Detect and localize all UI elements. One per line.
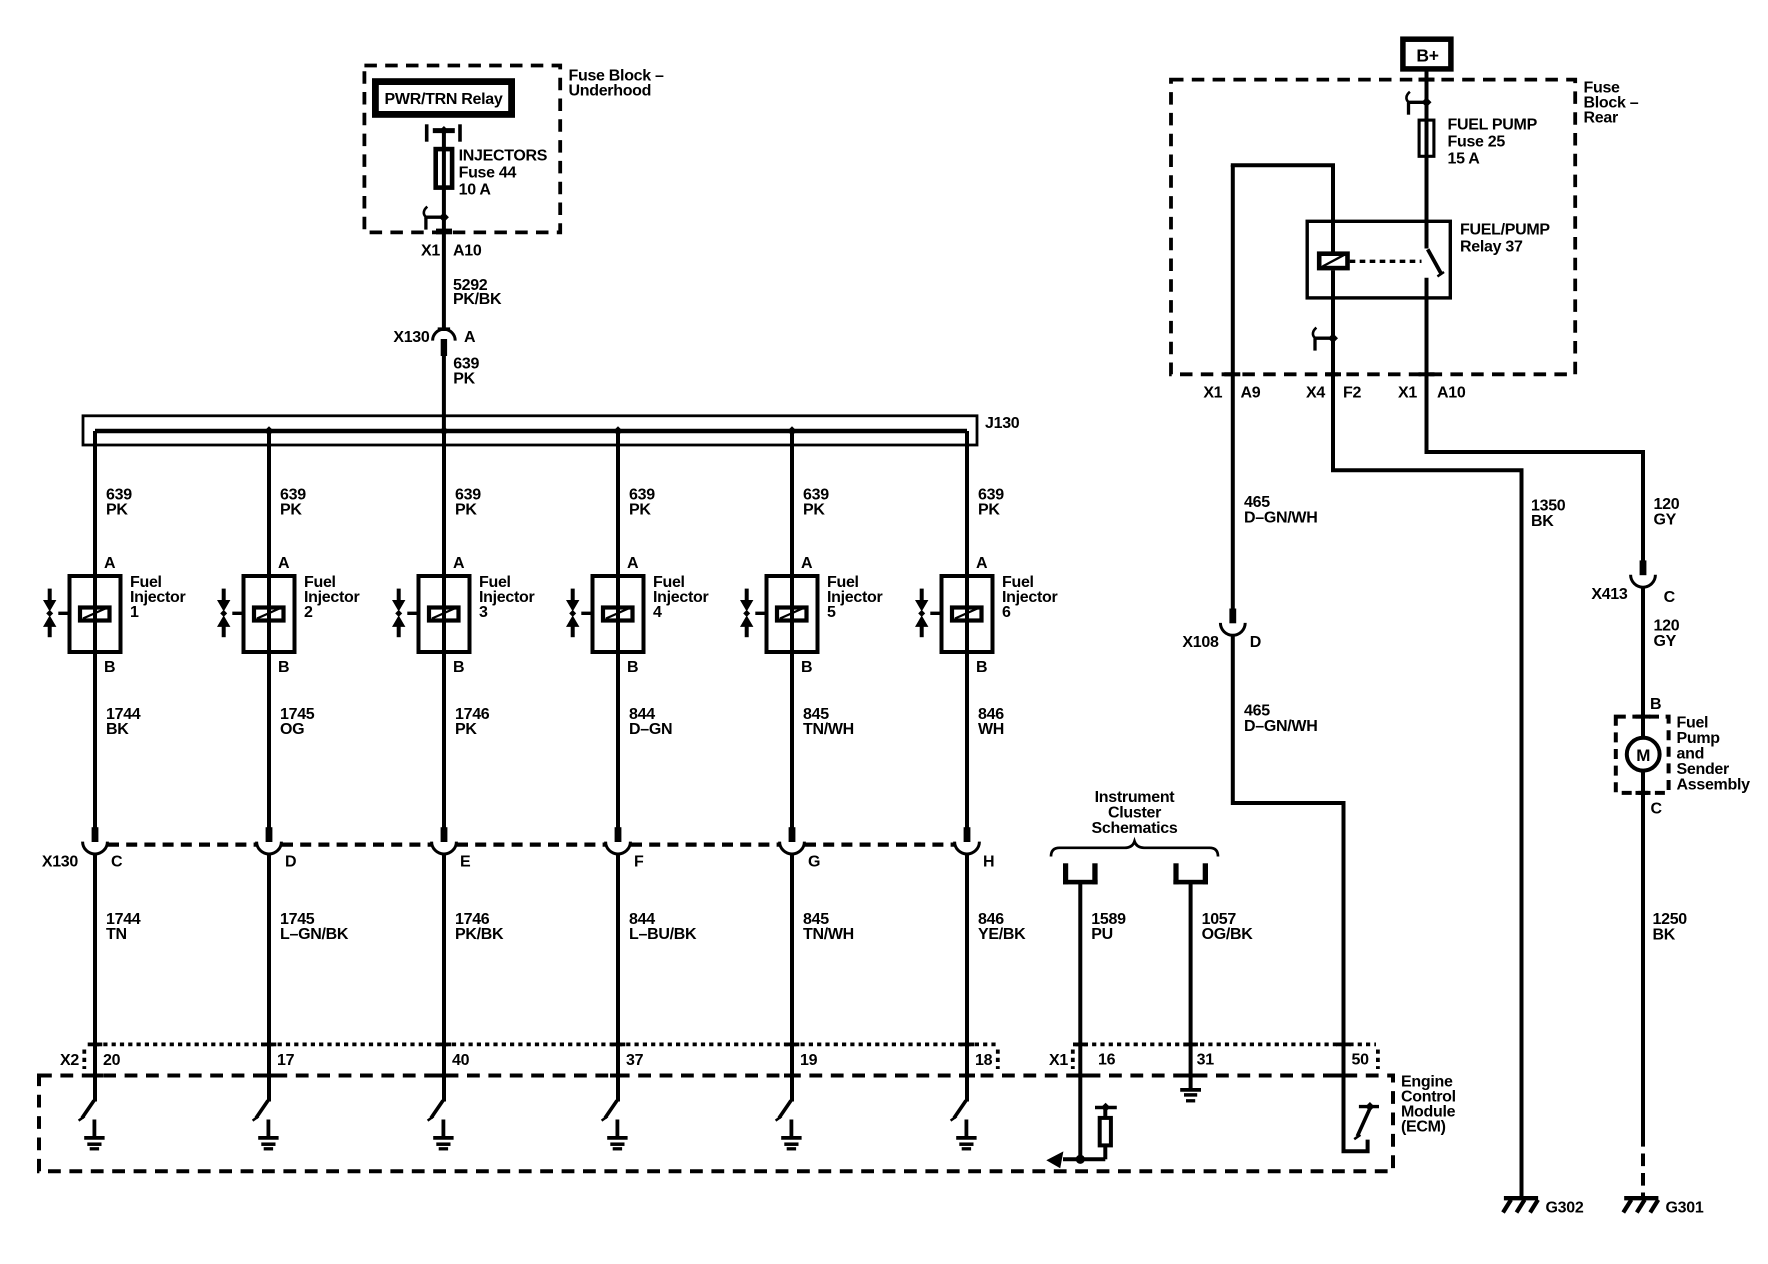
wire connector X130 to ECM pin 20 <box>93 853 97 1101</box>
svg-text:A: A <box>976 555 988 572</box>
relay internal dashed link <box>1350 260 1422 263</box>
pin 31 label <box>1197 1052 1215 1069</box>
svg-text:FUEL/PUMP: FUEL/PUMP <box>1460 222 1550 239</box>
svg-text:H: H <box>983 854 994 871</box>
connector X130 pin A <box>433 327 456 356</box>
wire bus to fuel injector 2 <box>267 431 271 574</box>
ground ECM driver 18 <box>956 1120 976 1149</box>
svg-text:PK: PK <box>978 502 1000 519</box>
svg-text:19: 19 <box>800 1052 818 1069</box>
splice clip B+ <box>1406 92 1431 115</box>
label Instrument Cluster Schematics <box>1092 789 1178 837</box>
svg-text:PK/BK: PK/BK <box>455 926 504 943</box>
svg-text:X130: X130 <box>393 329 430 346</box>
motor M fuel pump <box>1627 738 1660 771</box>
svg-text:J130: J130 <box>985 415 1020 432</box>
svg-text:(ECM): (ECM) <box>1401 1119 1446 1136</box>
wire pin A9 to connector X108 <box>1231 165 1235 609</box>
wire label 1746 PK <box>455 706 490 738</box>
svg-text:Fuse 44: Fuse 44 <box>459 165 517 182</box>
pin B label injector 6 <box>976 659 987 676</box>
fuse Fuse 25 <box>1419 119 1434 157</box>
ECM driver switch pin 20 <box>79 1101 94 1121</box>
wire label 465 D-GN/WH upper <box>1244 494 1317 527</box>
svg-text:B: B <box>104 659 115 676</box>
svg-text:A: A <box>104 555 116 572</box>
pin 40 label <box>452 1052 470 1069</box>
fuel injector 1 <box>43 574 121 654</box>
svg-text:Assembly: Assembly <box>1677 777 1751 794</box>
wire relay to fuse 44 <box>442 131 446 148</box>
wire label 846 YE/BK <box>978 911 1026 943</box>
svg-text:465: 465 <box>1244 703 1270 720</box>
svg-text:G: G <box>808 854 820 871</box>
svg-text:OG/BK: OG/BK <box>1202 926 1254 943</box>
brace instrument cluster <box>1051 841 1218 856</box>
wire label 465 D-GN/WH lower <box>1244 703 1317 736</box>
svg-text:X1: X1 <box>1398 385 1417 402</box>
ground ECM driver 19 <box>781 1120 801 1149</box>
label Fuel Injector 3 <box>479 574 534 621</box>
svg-text:D–GN/WH: D–GN/WH <box>1244 510 1317 527</box>
label Fuel Injector 1 <box>130 574 185 621</box>
svg-text:A: A <box>278 555 290 572</box>
ground ECM driver 17 <box>258 1120 278 1149</box>
svg-text:TN/WH: TN/WH <box>803 721 854 738</box>
svg-text:50: 50 <box>1352 1052 1370 1069</box>
connector X413 pin C <box>1631 560 1656 587</box>
connector X130 pin E <box>432 827 457 854</box>
svg-text:B: B <box>453 659 464 676</box>
fuel injector 3 <box>392 574 470 654</box>
svg-text:1250: 1250 <box>1653 911 1688 928</box>
svg-text:18: 18 <box>975 1052 993 1069</box>
wire label 120 GY lower <box>1654 618 1680 651</box>
resistor ECM pin 16 <box>1100 1118 1111 1146</box>
ECM driver switch pin 17 <box>253 1101 268 1121</box>
fuel injector 6 <box>915 574 993 654</box>
svg-text:YE/BK: YE/BK <box>978 926 1026 943</box>
wire B+ to splice <box>1425 69 1429 102</box>
connector X4 pin F2 labels <box>1306 385 1361 402</box>
svg-text:120: 120 <box>1654 618 1680 635</box>
wire label 846 WH <box>978 706 1004 738</box>
wire connector X413 to fuel pump <box>1641 587 1645 739</box>
wire label 639 PK injector 2 <box>280 487 306 519</box>
pin B label injector 1 <box>104 659 115 676</box>
connector X1 pin A10 labels right <box>1398 385 1466 402</box>
svg-text:A10: A10 <box>1437 385 1466 402</box>
svg-text:and: and <box>1677 746 1705 763</box>
svg-text:L–GN/BK: L–GN/BK <box>280 926 349 943</box>
svg-text:F: F <box>634 854 644 871</box>
svg-text:A: A <box>627 555 639 572</box>
wire injector 5 to connector X130 <box>790 654 794 842</box>
wire pin F2 to ground G302 <box>1333 468 1522 1196</box>
label FUEL PUMP Fuse 25 15 A <box>1448 117 1538 168</box>
connector instrument cluster circuit 1589 <box>1063 863 1098 884</box>
ECM connector X1 dotted edge <box>1073 1043 1378 1070</box>
relay PWR/TRN Relay box <box>375 82 511 115</box>
wire label 844 D&#8211;GN <box>629 706 672 738</box>
svg-text:L–BU/BK: L–BU/BK <box>629 926 697 943</box>
svg-text:X1: X1 <box>421 243 440 260</box>
pin 19 label <box>800 1052 818 1069</box>
label Engine Control Module ECM <box>1401 1074 1456 1136</box>
wire resistor to contact <box>1103 1109 1107 1118</box>
svg-text:G301: G301 <box>1666 1200 1704 1217</box>
svg-text:Instrument: Instrument <box>1095 789 1176 806</box>
battery B+ box <box>1403 39 1451 69</box>
wire bus to fuel injector 3 <box>442 431 446 574</box>
svg-text:G302: G302 <box>1546 1200 1584 1217</box>
svg-text:X4: X4 <box>1306 385 1325 402</box>
label Fuse Block Rear <box>1584 80 1639 127</box>
svg-text:INJECTORS: INJECTORS <box>459 148 548 165</box>
svg-text:PK/BK: PK/BK <box>453 291 502 308</box>
ground ECM pin 31 <box>1180 1090 1201 1101</box>
wire connector X130 to ECM pin 18 <box>965 853 969 1101</box>
wire label 1250 BK <box>1653 911 1688 944</box>
svg-text:X108: X108 <box>1182 634 1219 651</box>
connector X1 pin A9 labels <box>1203 385 1260 402</box>
svg-text:BK: BK <box>106 721 129 738</box>
svg-text:B: B <box>801 659 812 676</box>
splice clip relay coil <box>1313 328 1338 351</box>
wire injector 1 to connector X130 <box>93 654 97 842</box>
relay switch blade <box>1428 249 1444 276</box>
svg-text:2: 2 <box>304 604 313 621</box>
wire bus to fuel injector 5 <box>790 431 794 574</box>
pin C label fuel pump <box>1651 801 1663 818</box>
bus bar J130 <box>83 416 977 445</box>
pin A label injector 6 <box>976 555 988 572</box>
svg-text:6: 6 <box>1002 604 1011 621</box>
ground G301 <box>1623 1198 1658 1212</box>
svg-text:A: A <box>453 555 465 572</box>
wire injector 3 to connector X130 <box>442 654 446 842</box>
wire label 639 PK injector 1 <box>106 487 132 519</box>
wire ECM pin 50 internal <box>1344 1044 1368 1151</box>
connector X130 pin H <box>955 827 980 854</box>
svg-text:C: C <box>1651 801 1663 818</box>
svg-text:Fuel: Fuel <box>1677 715 1709 732</box>
pin A label injector 1 <box>104 555 116 572</box>
pin 18 label <box>975 1052 993 1069</box>
svg-text:X1: X1 <box>1203 385 1222 402</box>
svg-text:120: 120 <box>1654 496 1680 513</box>
relay terminal bracket <box>427 124 460 141</box>
svg-text:M: M <box>1636 746 1650 765</box>
wire splice to pin F2 <box>1331 338 1335 470</box>
svg-text:PK: PK <box>455 502 477 519</box>
ECM driver switch pin 40 <box>428 1101 443 1121</box>
wire label 1589 PU <box>1091 911 1126 943</box>
label G302 <box>1546 1200 1584 1217</box>
wire label 845 TN/WH <box>803 706 854 738</box>
relay coil <box>1319 254 1347 268</box>
svg-text:Fuse 25: Fuse 25 <box>1448 134 1506 151</box>
wire connector X130 to ECM pin 37 <box>616 853 620 1101</box>
pin 16 label <box>1098 1052 1116 1069</box>
label X2 <box>60 1052 79 1069</box>
wire label 1744 TN <box>106 911 141 943</box>
wire connector X130 to ECM pin 19 <box>790 853 794 1101</box>
wire label 639 PK injector 5 <box>803 487 829 519</box>
svg-text:C: C <box>111 854 123 871</box>
fuel pump and sender assembly dashed box <box>1616 715 1669 795</box>
pin E label <box>460 854 471 871</box>
svg-text:X413: X413 <box>1591 586 1628 603</box>
svg-text:37: 37 <box>626 1052 644 1069</box>
pin A label injector 5 <box>801 555 813 572</box>
connector X130 pin D <box>257 827 282 854</box>
wire label 1746 PK/BK <box>455 911 504 943</box>
label X1 ECM <box>1049 1052 1068 1069</box>
pin C label <box>111 854 123 871</box>
pin 20 label <box>103 1052 121 1069</box>
svg-text:3: 3 <box>479 604 488 621</box>
pin B label injector 3 <box>453 659 464 676</box>
wire coil feed bridge <box>1233 165 1333 251</box>
svg-text:B: B <box>278 659 289 676</box>
svg-text:X2: X2 <box>60 1052 79 1069</box>
svg-text:X130: X130 <box>42 854 79 871</box>
engine control module ECM dashed box <box>39 1074 1393 1172</box>
svg-text:A10: A10 <box>453 243 482 260</box>
wire fuel pump to dashed segment <box>1641 771 1645 1134</box>
connector X130 pin G <box>780 827 805 854</box>
svg-text:PWR/TRN Relay: PWR/TRN Relay <box>385 91 503 108</box>
label X130 A <box>393 329 476 346</box>
wire ECM pin 16 internal <box>1078 1078 1082 1159</box>
ground ECM driver 20 <box>84 1120 104 1149</box>
svg-text:17: 17 <box>277 1052 295 1069</box>
svg-text:PK: PK <box>629 502 651 519</box>
label G301 <box>1666 1200 1704 1217</box>
label Fuse Block Underhood <box>569 68 665 100</box>
wire label 639 PK injector 3 <box>455 487 481 519</box>
pin A label injector 4 <box>627 555 639 572</box>
fuse block rear dashed box <box>1171 78 1575 377</box>
svg-text:D–GN/WH: D–GN/WH <box>1244 718 1317 735</box>
ECM switch pin 50 <box>1354 1102 1379 1139</box>
wire ECM pin 31 internal <box>1189 1078 1193 1090</box>
pin 17 label <box>277 1052 295 1069</box>
svg-text:5: 5 <box>827 604 836 621</box>
svg-text:16: 16 <box>1098 1052 1116 1069</box>
wire pin A10 to connector X413 <box>1427 450 1644 561</box>
dashed connector row X130 <box>108 842 954 846</box>
contact bar pin 16 <box>1095 1103 1117 1112</box>
label Fuel Injector 2 <box>304 574 359 621</box>
svg-text:TN/WH: TN/WH <box>803 926 854 943</box>
connector X108 pin D <box>1220 609 1245 636</box>
pin B label fuel pump <box>1650 696 1661 713</box>
wire label 845 TN/WH <box>803 911 854 943</box>
wire dashed to ground G301 <box>1641 1134 1645 1196</box>
wire cluster to ECM pin 16 <box>1078 884 1082 1078</box>
svg-text:1350: 1350 <box>1531 498 1566 515</box>
svg-text:465: 465 <box>1244 494 1270 511</box>
svg-text:BK: BK <box>1531 513 1554 530</box>
wire label 1057 OG/BK <box>1202 911 1254 943</box>
svg-text:F2: F2 <box>1343 385 1361 402</box>
wire splice to connector X130 A <box>442 217 446 328</box>
svg-text:4: 4 <box>653 604 662 621</box>
pin D label <box>285 854 296 871</box>
pin F label <box>634 854 644 871</box>
wire junction to arrow <box>1063 1157 1080 1161</box>
label Fuel Pump and Sender Assembly <box>1677 715 1751 794</box>
svg-text:OG: OG <box>280 721 304 738</box>
pin B label injector 4 <box>627 659 638 676</box>
svg-text:PU: PU <box>1091 926 1113 943</box>
svg-text:20: 20 <box>103 1052 121 1069</box>
ECM connector X2 dotted edge <box>84 1043 999 1070</box>
label Fuel Injector 5 <box>827 574 882 621</box>
wire injector 6 to connector X130 <box>965 654 969 842</box>
svg-text:A: A <box>801 555 813 572</box>
wire relay switch to pin A10 <box>1425 278 1429 452</box>
svg-text:B: B <box>976 659 987 676</box>
pin 50 label <box>1352 1052 1370 1069</box>
svg-text:Pump: Pump <box>1677 730 1721 747</box>
svg-text:PK: PK <box>106 502 128 519</box>
ECM driver switch pin 19 <box>776 1101 791 1121</box>
wire label 639 PK injector 6 <box>978 487 1004 519</box>
wire bus to fuel injector 1 <box>93 431 97 574</box>
wire connector X130 to ECM pin 40 <box>442 853 446 1101</box>
wire injector 2 to connector X130 <box>267 654 271 842</box>
svg-text:40: 40 <box>452 1052 470 1069</box>
pin A label injector 3 <box>453 555 465 572</box>
label FUEL/PUMP Relay 37 <box>1460 222 1550 256</box>
wire label 120 GY upper <box>1654 496 1680 529</box>
fuse block underhood dashed box <box>364 66 560 235</box>
svg-text:Rear: Rear <box>1584 110 1618 127</box>
svg-text:15 A: 15 A <box>1448 151 1481 168</box>
svg-text:GY: GY <box>1654 633 1677 650</box>
fuse Fuse 44 <box>436 147 452 190</box>
pin 37 label <box>626 1052 644 1069</box>
svg-text:WH: WH <box>978 721 1004 738</box>
svg-text:Cluster: Cluster <box>1108 805 1161 822</box>
wire injector 4 to connector X130 <box>616 654 620 842</box>
svg-text:A: A <box>464 329 476 346</box>
svg-text:D: D <box>1250 634 1261 651</box>
svg-text:E: E <box>460 854 471 871</box>
svg-text:A9: A9 <box>1241 385 1261 402</box>
node junction pin 16 <box>1076 1155 1085 1164</box>
svg-text:GY: GY <box>1654 512 1677 529</box>
svg-text:PK: PK <box>803 502 825 519</box>
ECM driver switch pin 18 <box>951 1101 966 1121</box>
svg-text:31: 31 <box>1197 1052 1215 1069</box>
wire fuse 25 to relay switch <box>1425 156 1429 248</box>
wire connector A to bus J130 <box>442 355 446 431</box>
svg-text:BK: BK <box>1653 927 1676 944</box>
ECM driver switch pin 37 <box>602 1101 617 1121</box>
wire label 844 L&#8211;BU/BK <box>629 911 697 943</box>
svg-text:Sender: Sender <box>1677 761 1730 778</box>
svg-text:PK: PK <box>280 502 302 519</box>
label J130 <box>985 415 1020 432</box>
label X108 D <box>1182 634 1261 651</box>
svg-text:B: B <box>1650 696 1661 713</box>
wire label 5292 PK/BK <box>453 277 502 308</box>
label X413 C <box>1591 586 1675 606</box>
ground ECM driver 37 <box>607 1120 627 1149</box>
ground ECM driver 40 <box>433 1120 453 1149</box>
svg-text:X1: X1 <box>1049 1052 1068 1069</box>
connector X130 pin C <box>83 827 108 854</box>
pin G label <box>808 854 820 871</box>
relay FUEL/PUMP Relay 37 box <box>1307 221 1450 298</box>
wire label 1350 BK <box>1531 498 1566 531</box>
ground G302 <box>1503 1198 1538 1212</box>
svg-text:TN: TN <box>106 926 127 943</box>
wire cluster to ECM pin 31 <box>1189 884 1193 1078</box>
wire fuse 44 to splice <box>442 190 446 217</box>
label Fuel Injector 4 <box>653 574 708 621</box>
wire relay coil to splice <box>1331 270 1335 338</box>
svg-text:Schematics: Schematics <box>1092 820 1178 837</box>
pin B label injector 2 <box>278 659 289 676</box>
wire splice to fuse 25 <box>1425 102 1429 120</box>
connector instrument cluster circuit 1057 <box>1173 863 1208 884</box>
wire label 1745 L&#8211;GN/BK <box>280 911 349 943</box>
svg-text:PK: PK <box>455 721 477 738</box>
wire connector X130 to ECM pin 17 <box>267 853 271 1101</box>
svg-text:B: B <box>627 659 638 676</box>
wire junction to resistor <box>1080 1146 1105 1159</box>
pin A label injector 2 <box>278 555 290 572</box>
label X130 bottom row <box>42 854 79 871</box>
label Fuel Injector 6 <box>1002 574 1057 621</box>
pin B label injector 5 <box>801 659 812 676</box>
wire label 1745 OG <box>280 706 315 738</box>
wire label 639 PK injector 4 <box>629 487 655 519</box>
connector X130 pin F <box>606 827 631 854</box>
wire label 1744 BK <box>106 706 141 738</box>
arrow current direction <box>1046 1151 1063 1168</box>
label INJECTORS Fuse 44 10 A <box>459 148 548 199</box>
connector X1 pin A10 labels <box>421 243 482 260</box>
fuel injector 5 <box>740 574 818 654</box>
fuel injector 4 <box>566 574 644 654</box>
svg-text:B+: B+ <box>1416 45 1438 65</box>
svg-text:D–GN: D–GN <box>629 721 672 738</box>
svg-text:Relay 37: Relay 37 <box>1460 239 1523 256</box>
wire connector X108 to ECM pin 50 <box>1233 635 1344 1046</box>
svg-text:Underhood: Underhood <box>569 83 652 100</box>
svg-text:FUEL PUMP: FUEL PUMP <box>1448 117 1538 134</box>
pin H label <box>983 854 994 871</box>
splice clip underhood <box>424 207 449 230</box>
wire bus to fuel injector 4 <box>616 431 620 574</box>
wire bus to fuel injector 6 <box>965 431 969 574</box>
svg-text:C: C <box>1664 589 1676 606</box>
svg-text:D: D <box>285 854 296 871</box>
fuel injector 2 <box>217 574 295 654</box>
svg-text:10 A: 10 A <box>459 182 492 199</box>
svg-text:1: 1 <box>130 604 139 621</box>
svg-text:PK: PK <box>453 370 475 387</box>
wire label 639 PK feed <box>453 355 479 387</box>
